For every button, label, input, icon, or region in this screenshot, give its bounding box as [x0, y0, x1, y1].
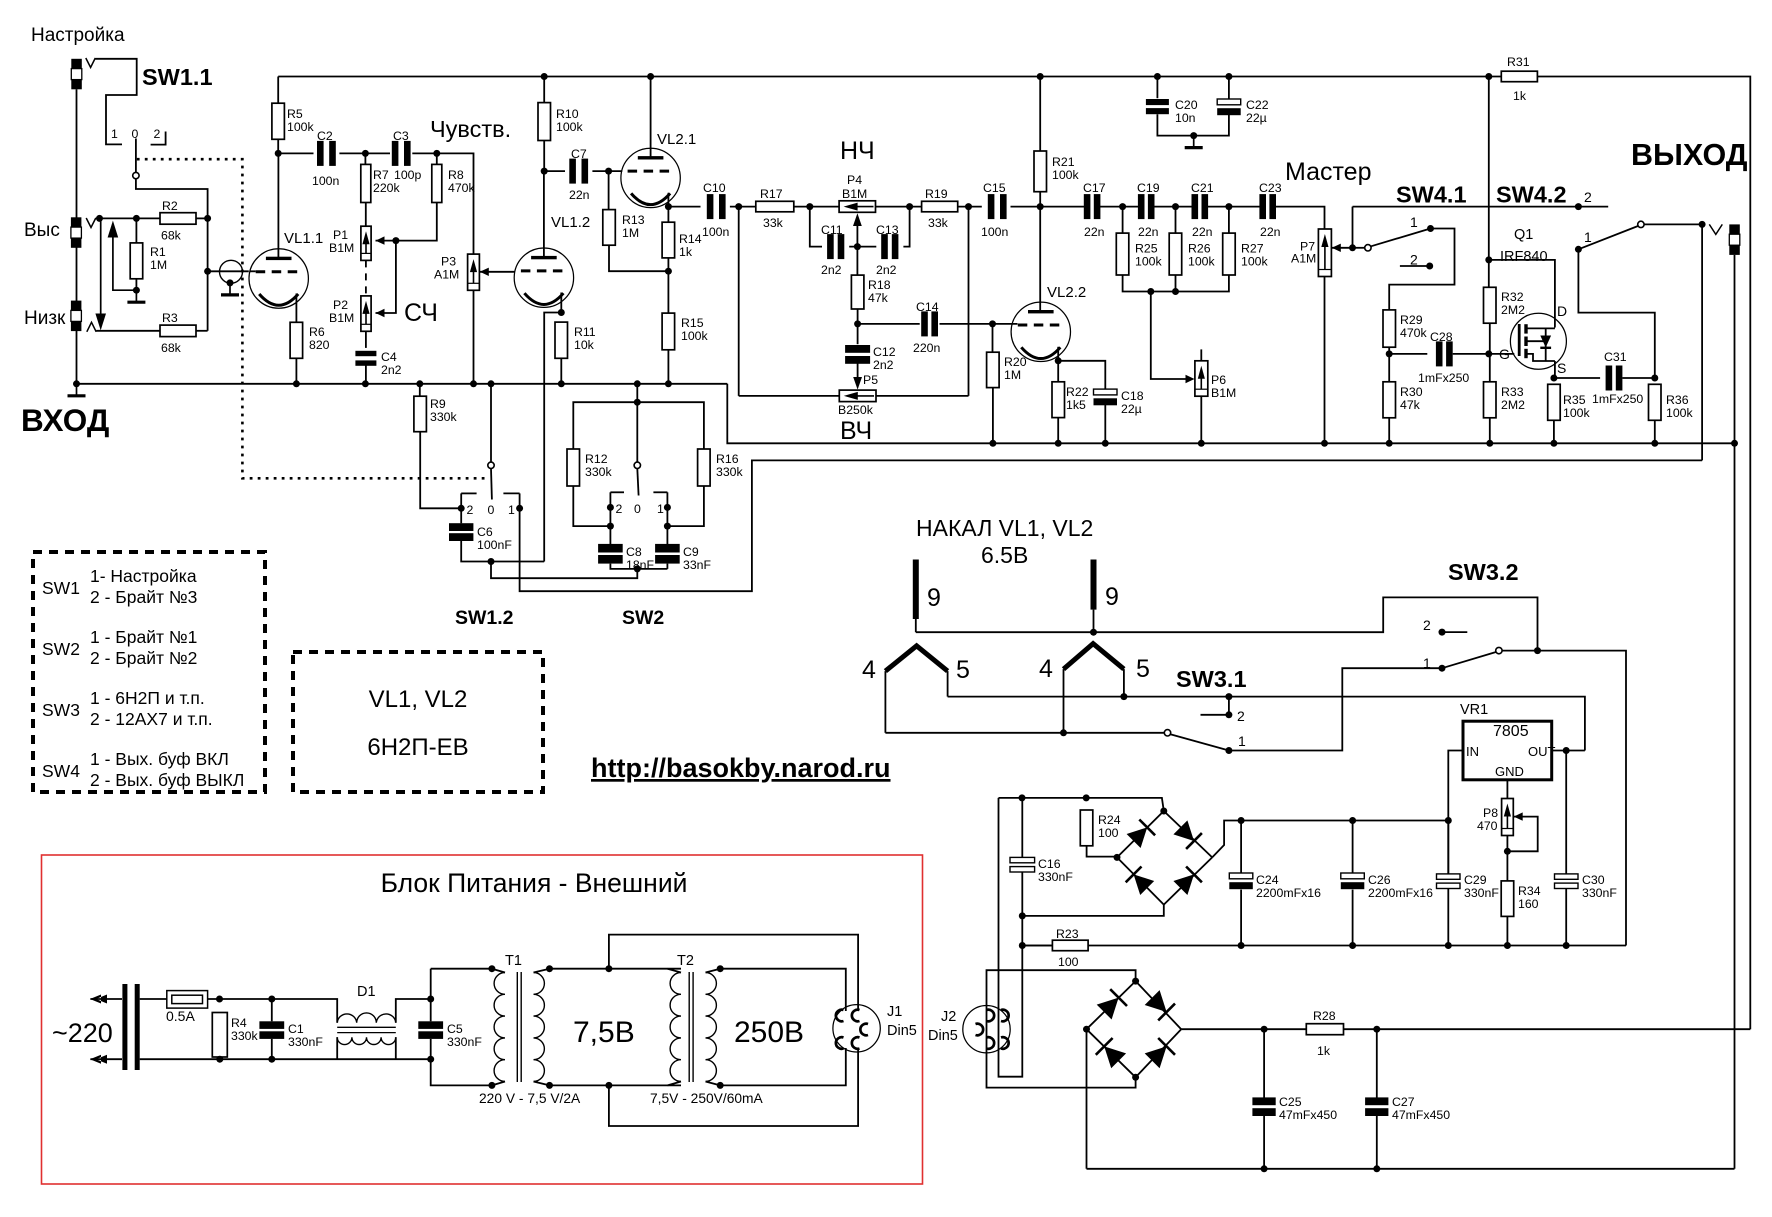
wire R34 bottom	[1506, 916, 1508, 945]
junction SW3.1 contact2 feed	[1225, 693, 1232, 700]
svg-text:R21: R21	[1052, 155, 1075, 169]
svg-text:1: 1	[1423, 655, 1431, 671]
arrowhead P1 wiper	[376, 236, 385, 244]
svg-text:R8: R8	[448, 168, 464, 182]
capacitor C12	[845, 345, 870, 353]
junction R36/lower bus	[1651, 440, 1658, 447]
diode bridge1 D-UR	[1173, 820, 1194, 841]
wire R2 right	[196, 217, 208, 219]
wire C29 top	[1447, 821, 1449, 874]
junction R6/ground bus	[293, 380, 300, 387]
svg-text:22µ: 22µ	[1246, 111, 1267, 125]
svg-text:330nF: 330nF	[1038, 870, 1073, 884]
wire R1 top	[135, 218, 137, 243]
svg-text:9: 9	[1105, 583, 1119, 611]
svg-text:C8: C8	[626, 545, 642, 559]
wire contact1 down	[666, 507, 668, 526]
junction pin9 VL2	[1090, 629, 1097, 636]
arrowhead P6 wiper	[1186, 375, 1195, 383]
wire R17 to P4	[794, 206, 839, 208]
svg-text:SW1.1: SW1.1	[142, 64, 213, 90]
svg-text:7,5В: 7,5В	[573, 1016, 635, 1049]
wire R7 top	[364, 153, 366, 164]
svg-text:НЧ: НЧ	[840, 137, 875, 165]
svg-text:2200mFx16: 2200mFx16	[1368, 886, 1433, 900]
junction C5 bottom	[427, 1056, 434, 1063]
resistor R26	[1169, 233, 1182, 275]
wire C8 bottom	[610, 564, 667, 569]
T1 secondary coil	[534, 973, 545, 1082]
svg-text:S: S	[1557, 360, 1566, 376]
junction wiper feed split	[392, 237, 399, 244]
junction C17/R25	[1119, 203, 1126, 210]
wire T1 sec top in	[534, 969, 550, 973]
wire C23 to P7 top	[1276, 207, 1325, 229]
junction C25/R28 left	[1261, 1026, 1268, 1033]
svg-text:100k: 100k	[1188, 255, 1216, 269]
wire C16 bottom lead	[1021, 872, 1023, 946]
svg-text:SW1.2: SW1.2	[455, 607, 514, 629]
svg-text:P4: P4	[847, 173, 862, 187]
svg-text:http://basokby.narod.ru: http://basokby.narod.ru	[591, 753, 891, 783]
ground input	[76, 384, 78, 396]
svg-text:C15: C15	[983, 181, 1006, 195]
junction P3/ground bus	[470, 380, 477, 387]
svg-text:330nF: 330nF	[447, 1035, 482, 1049]
junction Q1 source	[1550, 375, 1557, 382]
wire dotted gang link SW1.1-SW1.2	[137, 159, 489, 478]
wire SW3.1 arm	[1170, 734, 1229, 750]
wire C6 to C8/C9 bottoms	[491, 562, 637, 579]
wire VL1.1 cathode	[295, 294, 297, 323]
junction R20/lower bus	[989, 440, 996, 447]
wire R10 bottom	[543, 141, 545, 172]
wire C1 to D1 top	[259, 999, 337, 1023]
bracket SW1.2 left v	[460, 493, 462, 505]
svg-text:2n2: 2n2	[821, 263, 842, 277]
svg-text:22µ: 22µ	[1121, 402, 1142, 416]
wire heater supply bus	[1022, 945, 1626, 947]
wire C25 bottom lead	[1263, 1115, 1265, 1169]
wire to C28	[1389, 353, 1427, 355]
junction output jack tip	[1699, 221, 1706, 228]
junction shield ground	[227, 279, 234, 286]
junction C27/R28 right	[1373, 1026, 1380, 1033]
wire pin5 VL1 down	[947, 671, 949, 697]
svg-text:1: 1	[111, 127, 118, 141]
wire P1-P2 dashed track	[365, 260, 367, 296]
bracket SW2 right v	[666, 492, 668, 504]
wire R25 top	[1122, 207, 1124, 234]
svg-text:C25: C25	[1279, 1095, 1302, 1109]
wire plate lead VL2.2	[1039, 207, 1041, 311]
svg-text:100k: 100k	[1135, 255, 1163, 269]
svg-text:Q1: Q1	[1514, 227, 1533, 243]
resistor R9	[414, 396, 427, 432]
capacitor C19	[1138, 194, 1145, 219]
wire bridge2 plus to R28	[1181, 1028, 1306, 1030]
svg-text:330k: 330k	[430, 410, 458, 424]
bridge2 edge UR	[1136, 981, 1182, 1029]
svg-text:VL2.2: VL2.2	[1047, 284, 1086, 301]
junction SW2 frame	[634, 399, 641, 406]
svg-text:160: 160	[1518, 897, 1539, 911]
wire contact2 down	[609, 507, 611, 526]
junction R19/P5 right	[965, 203, 972, 210]
svg-text:100n: 100n	[312, 174, 340, 188]
capacitor C10	[707, 194, 714, 219]
resistor R6	[290, 322, 303, 358]
svg-text:1mFx250: 1mFx250	[1592, 392, 1643, 406]
wire to P2 wiper	[376, 241, 396, 313]
capacitor C17	[1084, 194, 1091, 219]
wire R16 bottom	[667, 486, 704, 526]
junction R12/C8	[607, 523, 614, 530]
junction C27/ground bus3	[1373, 1165, 1380, 1172]
wire R7 to P1	[365, 203, 367, 227]
svg-text:1: 1	[1584, 229, 1592, 245]
diode bridge2 D-LR	[1145, 1046, 1167, 1068]
wire R11 bottom	[560, 358, 562, 384]
svg-text:2 - Брайт №2: 2 - Брайт №2	[90, 648, 197, 668]
bridge1 edge LL	[1117, 857, 1164, 904]
svg-text:~220: ~220	[52, 1018, 113, 1048]
svg-text:SW2: SW2	[622, 607, 664, 629]
svg-text:R20: R20	[1004, 355, 1027, 369]
svg-text:1mFx250: 1mFx250	[1418, 371, 1469, 385]
J2 pin arcs	[987, 1010, 995, 1022]
svg-text:2n2: 2n2	[876, 263, 897, 277]
wire J2 stem through	[986, 1006, 988, 1053]
svg-text:C9: C9	[683, 545, 699, 559]
svg-text:220n: 220n	[913, 341, 941, 355]
wire C24 bottom lead	[1240, 890, 1242, 946]
svg-text:2: 2	[154, 127, 161, 141]
capacitor C27	[1365, 1097, 1388, 1105]
junction C16/bridge1 minus	[1019, 912, 1026, 919]
wire C18 bottom	[1104, 403, 1106, 444]
wire T1 prim top in	[492, 969, 505, 973]
wire VR1 GND to P8	[1506, 780, 1508, 799]
junction T1 secondary top	[546, 965, 553, 972]
capacitor C25	[1252, 1097, 1275, 1105]
heater pin 9 bar VL1	[913, 560, 919, 620]
wire R21 top	[1039, 77, 1041, 152]
svg-text:D: D	[1557, 303, 1567, 319]
resistor R7	[361, 164, 371, 202]
SW1.2 pole circle	[488, 462, 494, 468]
svg-text:C27: C27	[1392, 1095, 1415, 1109]
wire R12 bottom	[573, 486, 610, 526]
junction R4 bottom	[216, 1056, 223, 1063]
wire P6 top stub	[1200, 349, 1202, 360]
resistor R8	[432, 164, 442, 202]
svg-text:R31: R31	[1507, 55, 1530, 69]
wire C3 to R8/P3	[412, 153, 473, 254]
bracket SW1.2 right h	[503, 492, 519, 494]
svg-text:220 V - 7,5 V/2A: 220 V - 7,5 V/2A	[479, 1091, 581, 1106]
wire T1 sec to T2 prim top	[550, 968, 682, 970]
svg-text:Мастер: Мастер	[1285, 158, 1372, 186]
wire SW4.2 contact1 to R36 top	[1578, 249, 1654, 378]
junction C2/C3/R7	[362, 150, 369, 157]
wire C5 bottom lead	[430, 1039, 432, 1059]
contact SW1.2 pos 1	[516, 505, 523, 512]
junction C1 bottom	[268, 1056, 275, 1063]
svg-text:1- Настройка: 1- Настройка	[90, 566, 197, 586]
wire pin5 bus to VR1 OUT	[948, 697, 1585, 751]
wire cathode to C10	[668, 206, 700, 208]
capacitor C15	[988, 194, 995, 219]
capacitor C14	[921, 311, 928, 336]
svg-text:330nF: 330nF	[288, 1035, 323, 1049]
wire R8 to P1 wiper	[376, 203, 437, 241]
junction R33/lower bus	[1486, 440, 1493, 447]
junction T2 bottom loop	[605, 1082, 612, 1089]
capacitor C29	[1437, 874, 1461, 879]
wire R31 node down to R32	[1488, 77, 1490, 260]
capacitor C26	[1341, 873, 1365, 879]
svg-text:22n: 22n	[1138, 225, 1159, 239]
junction T1 secondary bottom	[546, 1082, 553, 1089]
junction VL2.1 cathode	[665, 203, 672, 210]
wire output jack sleeve down	[1734, 255, 1736, 1169]
svg-text:5: 5	[956, 656, 970, 684]
resistor R27	[1223, 233, 1236, 275]
ground shield	[229, 283, 231, 295]
wire C5 down to T1	[431, 1059, 492, 1085]
capacitor C13	[881, 234, 888, 259]
svg-text:SW2: SW2	[42, 639, 80, 659]
junction R30/lower bus	[1386, 440, 1393, 447]
svg-text:330k: 330k	[231, 1029, 259, 1043]
resistor R31	[1501, 71, 1537, 82]
bracket SW1.2 right v	[519, 493, 521, 505]
potentiometer P1	[361, 226, 371, 260]
svg-text:R5: R5	[287, 107, 303, 121]
wire T2 sec top in	[706, 969, 721, 973]
svg-text:C14: C14	[916, 300, 939, 314]
wire C31 to R36	[1622, 377, 1654, 379]
wire C15 to C17	[1011, 206, 1085, 208]
wire to P6 wiper	[1151, 292, 1189, 380]
wire bridge1 top line	[999, 798, 1164, 811]
resistor R33	[1484, 382, 1497, 418]
wire T2 prim top in	[668, 969, 682, 973]
junction pin5 VL2	[1120, 693, 1127, 700]
J1 pin arcs	[836, 1010, 844, 1022]
svg-text:330nF: 330nF	[1464, 886, 1499, 900]
wire T1 prim bottom out	[492, 1082, 505, 1086]
potentiometer P5	[839, 390, 876, 402]
wire SW2 frame	[573, 402, 704, 449]
svg-text:R7: R7	[373, 168, 389, 182]
svg-text:R28: R28	[1313, 1009, 1336, 1023]
wire C9 bottom	[666, 564, 668, 569]
wire grid VL2.2	[993, 323, 1018, 325]
svg-text:ВХОД: ВХОД	[21, 402, 109, 438]
junction R2/SW1.1	[204, 215, 211, 222]
wire jack tip to bright line	[1701, 224, 1703, 460]
svg-text:2: 2	[1423, 617, 1431, 633]
junction VL2.1 plate/top bus	[647, 73, 654, 80]
svg-text:47mFx450: 47mFx450	[1279, 1108, 1337, 1122]
diode bridge2 D-LL	[1104, 1046, 1126, 1068]
junction T1 primary bottom	[488, 1082, 495, 1089]
wire R25-R27 bottoms	[1123, 275, 1229, 292]
svg-text:R17: R17	[760, 187, 783, 201]
svg-text:C22: C22	[1246, 98, 1269, 112]
arrowhead P8 wiper	[1514, 812, 1523, 820]
wire C26 bottom lead	[1352, 890, 1354, 946]
wire pin9 bus	[916, 597, 1538, 650]
wire SW3.2 pole to supply bus	[1502, 651, 1626, 946]
svg-text:ВЫХОД: ВЫХОД	[1631, 138, 1748, 172]
junction C11/C13/R18	[854, 243, 861, 250]
junction R4 top	[216, 996, 223, 1003]
svg-text:R32: R32	[1501, 290, 1524, 304]
svg-text:B250k: B250k	[838, 403, 874, 417]
wire R21 bottom	[1039, 192, 1041, 207]
svg-text:Низк: Низк	[24, 308, 66, 329]
svg-text:100n: 100n	[702, 225, 730, 239]
svg-text:GND: GND	[1495, 764, 1524, 779]
capacitor C23	[1259, 194, 1266, 219]
svg-text:100k: 100k	[1563, 406, 1591, 420]
wire J2 bottom to bridge2	[987, 1053, 1136, 1088]
svg-text:VL2.1: VL2.1	[657, 131, 696, 148]
diode bridge2 D-UL	[1097, 998, 1119, 1020]
junction R23 node	[1019, 942, 1026, 949]
junction C21/R27	[1225, 203, 1232, 210]
svg-text:C18: C18	[1121, 389, 1144, 403]
junction C4/ground bus	[362, 380, 369, 387]
wire SW4.1 contact1 to R29	[1389, 229, 1454, 310]
connector low input jack (Низк)	[71, 301, 82, 311]
svg-text:0.5A: 0.5A	[166, 1008, 195, 1024]
svg-text:250В: 250В	[734, 1016, 804, 1049]
svg-text:22n: 22n	[1260, 225, 1281, 239]
junction C10/P5 branch	[735, 203, 742, 210]
T1 primary winding	[494, 973, 505, 1082]
junction R21/VL2.2 plate	[1037, 203, 1044, 210]
svg-text:R10: R10	[556, 107, 579, 121]
junction T2 secondary bottom	[717, 1082, 724, 1089]
svg-text:SW4.1: SW4.1	[1396, 182, 1467, 208]
svg-text:R30: R30	[1400, 385, 1423, 399]
wire SW3.2 contact2 tick	[1442, 631, 1467, 633]
junction R5/C2/plate	[275, 150, 282, 157]
junction C5 top	[427, 996, 434, 1003]
signal arrow up (input select)	[113, 236, 136, 290]
svg-text:R36: R36	[1666, 393, 1689, 407]
svg-text:C24: C24	[1256, 873, 1279, 887]
wire C5 top lead	[430, 999, 432, 1021]
svg-text:2 - Вых. буф ВЫКЛ: 2 - Вых. буф ВЫКЛ	[90, 770, 244, 790]
wire R14 top	[667, 207, 669, 223]
contact SW4.1 pos 1	[1427, 225, 1434, 232]
svg-text:C19: C19	[1137, 181, 1160, 195]
svg-text:R34: R34	[1518, 884, 1541, 898]
wire SW1.1 pole to R2 node	[136, 179, 208, 219]
svg-text:T2: T2	[677, 953, 694, 969]
svg-text:R11: R11	[574, 325, 596, 339]
junction VL2.2 cathode	[1055, 357, 1062, 364]
wire T2 primary bottom loop to J1	[609, 1048, 858, 1126]
wire to C7	[544, 170, 565, 172]
junction SW1.2 pole/ground bus	[488, 380, 495, 387]
junction C24/supply bus	[1238, 942, 1245, 949]
svg-text:1: 1	[508, 503, 515, 517]
wire C11-C13	[849, 246, 876, 248]
svg-text:10k: 10k	[574, 338, 595, 352]
wire C20 top	[1156, 77, 1158, 99]
bridge2 edge LR	[1136, 1029, 1182, 1077]
resistor R30	[1383, 382, 1396, 418]
capacitor C6	[449, 523, 473, 531]
wire R29 bottom	[1388, 347, 1390, 382]
junction OUT/C30	[1563, 747, 1570, 754]
connector high input jack (Выс)	[71, 217, 82, 227]
junction P7 wiper/SW4.1 pole	[1349, 244, 1356, 251]
svg-text:0: 0	[634, 502, 641, 516]
svg-text:C4: C4	[381, 350, 397, 364]
resistor R22	[1052, 382, 1065, 418]
SW4.2 pole circle	[1638, 221, 1644, 227]
contact SW4.1 pos 2	[1426, 263, 1433, 270]
junction R29/C28/R30	[1386, 350, 1393, 357]
jack tip mark (output)	[1709, 224, 1722, 234]
D1 core lines	[337, 1026, 396, 1028]
wire SW2 pole feed	[636, 384, 638, 463]
svg-text:C16: C16	[1038, 857, 1061, 871]
svg-text:4: 4	[1039, 655, 1053, 683]
svg-text:2 - Брайт №3: 2 - Брайт №3	[90, 587, 197, 607]
wire VL2.2 cathode	[1057, 347, 1059, 361]
bracket SW2 left v	[609, 492, 611, 504]
wire C22 bottom	[1194, 112, 1229, 135]
wire SW4.1 contact2 stub	[1400, 265, 1430, 267]
junction C22/top bus	[1225, 73, 1232, 80]
junction R21/top bus	[1037, 73, 1044, 80]
wire C21 to C23	[1208, 206, 1260, 208]
wire C24 top lead	[1240, 821, 1242, 874]
svg-text:SW3.1: SW3.1	[1176, 666, 1247, 692]
wire pin9 VL1 down	[915, 619, 917, 632]
wire T2 prim bottom out	[668, 1082, 682, 1086]
resistor R28	[1306, 1024, 1343, 1035]
svg-text:22n: 22n	[1192, 225, 1213, 239]
wire SW2 pole arm	[637, 468, 638, 495]
wire SW1.1 pole	[135, 139, 137, 173]
svg-text:C20: C20	[1175, 98, 1198, 112]
svg-text:100k: 100k	[287, 120, 315, 134]
resistor R3	[160, 325, 196, 337]
jack tip mark (Настройка)	[86, 58, 96, 68]
junction C20/C22 ground	[1190, 132, 1197, 139]
heater pins 4-5 VL1	[885, 646, 947, 671]
svg-text:B1M: B1M	[329, 311, 354, 325]
svg-text:820: 820	[309, 338, 330, 352]
capacitor C11	[827, 234, 834, 259]
junction bridge2 left	[1083, 1026, 1090, 1033]
svg-text:A1M: A1M	[434, 268, 459, 282]
Q1 drain internal	[1526, 327, 1555, 329]
wire SW3.1 contact1 to SW3.2 contact1	[1229, 668, 1442, 750]
wiper stem P5	[857, 361, 859, 384]
T2 primary winding	[670, 973, 681, 1082]
wire R9 to SW1.2 contact 2	[420, 432, 461, 509]
